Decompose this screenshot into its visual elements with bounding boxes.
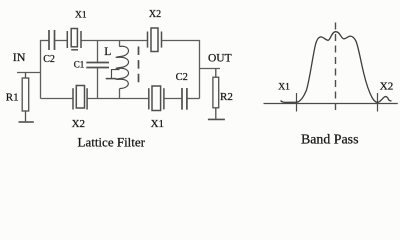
crystal X2 (top) bbox=[148, 28, 162, 52]
dashed center frequency line bbox=[335, 23, 337, 114]
capacitor C2 (top left) bbox=[49, 30, 55, 50]
svg-text:C2: C2 bbox=[176, 72, 188, 83]
crystal X2 (bottom left) bbox=[73, 86, 87, 110]
wire L center tap bbox=[112, 70, 120, 78]
svg-text:R2: R2 bbox=[220, 91, 233, 103]
svg-text:X2: X2 bbox=[72, 118, 85, 130]
svg-text:X2: X2 bbox=[149, 9, 161, 20]
dashed core line (right of L) bbox=[138, 47, 140, 83]
resistor R1 bbox=[22, 73, 29, 122]
svg-text:X1: X1 bbox=[75, 10, 87, 20]
svg-text:X1: X1 bbox=[278, 83, 290, 93]
wire C1 branch bottom bbox=[97, 68, 99, 99]
svg-text:L: L bbox=[104, 46, 111, 58]
svg-text:IN: IN bbox=[13, 50, 26, 64]
resistor R2 bbox=[213, 69, 219, 119]
wire bottom rail bbox=[41, 98, 200, 100]
crystal X1 (bottom right) bbox=[149, 86, 164, 111]
svg-text:Band Pass: Band Pass bbox=[301, 133, 359, 148]
capacitor C2 (bottom right) bbox=[182, 88, 187, 110]
node OUT stub wire bbox=[200, 68, 221, 70]
ground (under R2) bbox=[208, 118, 225, 120]
tick X2 bbox=[377, 93, 379, 112]
node IN stub wire bbox=[17, 72, 41, 74]
response curve bbox=[281, 32, 392, 103]
wire right vertical bbox=[199, 40, 201, 99]
svg-text:C2: C2 bbox=[43, 54, 55, 65]
wire C1 branch top bbox=[97, 41, 99, 63]
ground (L tap bar) bbox=[106, 78, 117, 80]
svg-text:X2: X2 bbox=[380, 80, 393, 92]
wire L branch bottom bbox=[119, 89, 121, 99]
crystal X1 (top) bbox=[67, 29, 81, 50]
inductor L bbox=[116, 46, 128, 88]
wire left vertical bbox=[40, 40, 42, 99]
wire L branch top bbox=[119, 41, 121, 47]
tick X1 bbox=[296, 93, 298, 112]
svg-text:R1: R1 bbox=[6, 92, 19, 104]
capacitor C1 bbox=[86, 63, 109, 68]
svg-text:Lattice Filter: Lattice Filter bbox=[78, 134, 146, 149]
ground (under R1) bbox=[19, 121, 34, 123]
wire top rail bbox=[41, 40, 200, 42]
svg-text:OUT: OUT bbox=[208, 52, 232, 64]
svg-text:C1: C1 bbox=[74, 60, 85, 70]
axis baseline (band pass) bbox=[264, 103, 398, 105]
svg-text:X1: X1 bbox=[151, 118, 164, 130]
